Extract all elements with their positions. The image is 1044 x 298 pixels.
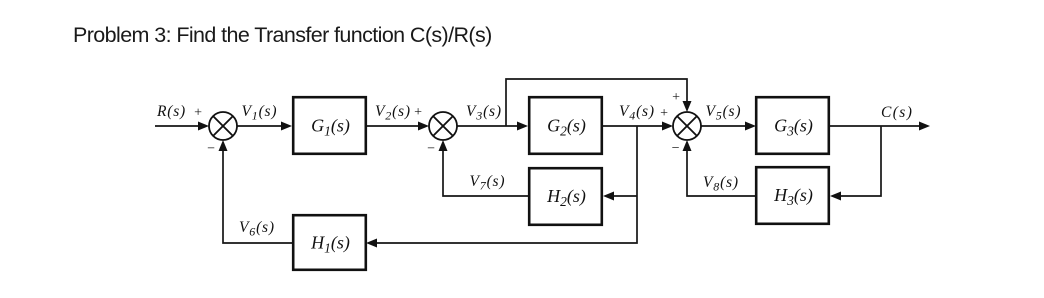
- wire summer3 to G3: [701, 125, 747, 127]
- block G1: [293, 97, 366, 154]
- wire C(s) branch down into H3: [839, 126, 881, 196]
- block H3: [756, 167, 829, 224]
- svg-text:G1(s): G1(s): [311, 116, 350, 139]
- block H1: [293, 215, 366, 270]
- svg-text:−: −: [206, 142, 215, 157]
- svg-text:V3(s): V3(s): [466, 103, 502, 123]
- summer 1: [209, 112, 237, 140]
- svg-text:H1(s): H1(s): [310, 233, 350, 256]
- summer 2: [429, 112, 457, 140]
- svg-text:G2(s): G2(s): [547, 116, 586, 139]
- svg-text:V1(s): V1(s): [242, 103, 278, 123]
- svg-text:G3(s): G3(s): [774, 116, 813, 139]
- svg-text:+: +: [671, 90, 680, 105]
- wire G3 to C(s) output: [830, 125, 921, 127]
- svg-text:V4(s): V4(s): [619, 103, 655, 123]
- arrowhead into summer2: [418, 122, 429, 131]
- wire feedforward V3 tap up and over to summer3: [506, 79, 687, 126]
- wire summer2 to G2: [457, 125, 519, 127]
- svg-text:V8(s): V8(s): [703, 174, 739, 194]
- arrowhead feedforward into summer3 top: [683, 101, 692, 112]
- arrowhead C(s) output: [919, 122, 930, 131]
- wire G1 to summer2: [367, 125, 420, 127]
- block G3: [756, 97, 829, 154]
- arrowhead into H3: [830, 192, 841, 201]
- arrowhead H3 fb into summer3 bottom: [683, 140, 692, 151]
- block G2: [529, 97, 602, 154]
- arrowhead into G2: [517, 122, 528, 131]
- wire tap after G2 down to H2 and H1: [375, 126, 637, 243]
- wire branch into H2: [612, 195, 637, 197]
- svg-text:C(s): C(s): [881, 104, 913, 121]
- svg-text:+: +: [193, 106, 202, 121]
- arrowhead H2 fb into summer2 bottom: [439, 140, 448, 151]
- wire summer1 to G1: [237, 125, 283, 127]
- svg-text:+: +: [413, 105, 422, 120]
- summer 3: [673, 112, 701, 140]
- svg-text:V2(s): V2(s): [375, 103, 411, 123]
- svg-text:V6(s): V6(s): [239, 219, 275, 239]
- svg-text:+: +: [659, 106, 668, 121]
- svg-text:−: −: [426, 142, 435, 157]
- arrowhead H1 fb into summer1 bottom: [219, 140, 228, 151]
- arrowhead into G1: [281, 122, 292, 131]
- block H2: [529, 168, 602, 225]
- arrowhead into summer3 left: [662, 122, 673, 131]
- svg-text:H3(s): H3(s): [773, 185, 813, 208]
- svg-text:V7(s): V7(s): [470, 173, 506, 193]
- wire H3 output to summer3: [687, 149, 755, 196]
- arrowhead into H2: [603, 192, 614, 201]
- wire R(s) input: [155, 125, 200, 127]
- wire G2 to summer3: [603, 125, 664, 127]
- svg-text:−: −: [671, 141, 680, 156]
- svg-text:R(s): R(s): [156, 103, 186, 120]
- arrowhead into summer1: [198, 122, 209, 131]
- svg-text:H2(s): H2(s): [546, 186, 586, 209]
- wire H1 output to summer1: [223, 149, 292, 243]
- arrowhead into H1: [366, 239, 377, 248]
- title: [73, 23, 492, 48]
- wire H2 output to summer2: [443, 149, 528, 196]
- svg-text:V5(s): V5(s): [706, 103, 742, 123]
- arrowhead into G3: [745, 122, 756, 131]
